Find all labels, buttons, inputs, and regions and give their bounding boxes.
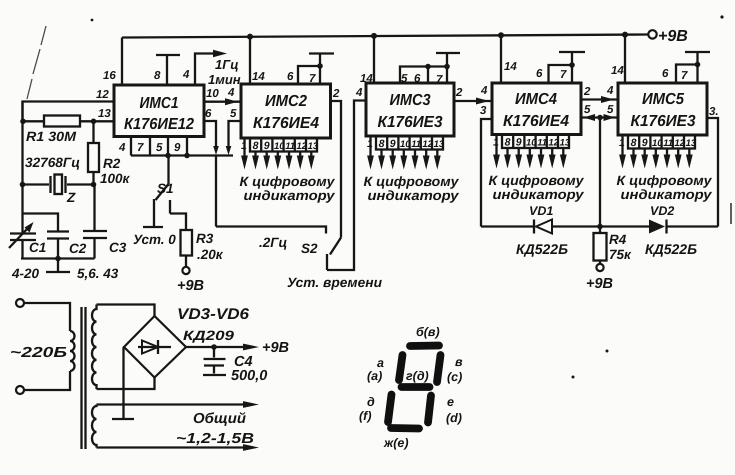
resistor R1 <box>23 116 114 127</box>
pin row IC2 <box>241 138 319 152</box>
label KD522B right <box>645 241 697 257</box>
wire IC4 pin2 to IC5 pin4 <box>581 96 618 103</box>
node R2-C3 junction <box>91 182 97 188</box>
svg-text:Общий: Общий <box>193 411 246 427</box>
wire left bus vertical <box>21 102 23 233</box>
label 1Hz <box>215 57 239 72</box>
pin 13 label IC1 <box>98 108 111 120</box>
svg-text:14: 14 <box>611 65 624 77</box>
speck near digit 2 <box>606 350 609 353</box>
wire mains to primary <box>24 303 70 390</box>
wire IC5 pin14 drop <box>624 35 626 83</box>
svg-text:8: 8 <box>253 140 259 152</box>
pins 6-7 staple IC4 <box>549 65 573 83</box>
svg-text:4: 4 <box>118 142 126 154</box>
svg-text:1Гц: 1Гц <box>215 57 239 72</box>
pins 6-7 staple IC2 <box>298 66 320 84</box>
capacitor C2 <box>47 232 69 259</box>
wire C2 feed <box>23 214 59 232</box>
svg-text:б(в): б(в) <box>416 325 440 339</box>
svg-text:ИМС3: ИМС3 <box>390 92 431 109</box>
label VD2 <box>650 204 674 218</box>
resistor R2 <box>88 121 99 184</box>
switch S1 <box>154 156 170 227</box>
wire IC2 pin14 drop <box>249 37 251 84</box>
svg-text:К цифровому: К цифровому <box>617 173 714 188</box>
svg-text:КД522Б: КД522Б <box>645 241 697 257</box>
svg-text:индикатору: индикатору <box>621 187 714 202</box>
svg-text:10: 10 <box>274 141 285 152</box>
wire S2 to IC3 pin4 <box>327 101 366 271</box>
capacitor C3 <box>83 185 107 259</box>
svg-text:(f): (f) <box>359 409 372 423</box>
svg-text:7: 7 <box>681 70 688 82</box>
node rail junction IC4 pin14 <box>498 32 504 38</box>
svg-text:7: 7 <box>137 142 144 154</box>
label C3 <box>109 240 127 255</box>
pin 4 label IC2 <box>227 87 235 99</box>
pin 8 label IC1 <box>154 70 161 82</box>
svg-text:S1: S1 <box>157 181 174 196</box>
wire secondary1 top to bridge <box>97 305 155 317</box>
svg-text:а: а <box>377 356 384 370</box>
wire common output arrow <box>97 401 260 408</box>
crystal Z <box>51 175 66 195</box>
svg-text:12: 12 <box>548 138 559 149</box>
pin 7 label IC5 <box>681 70 688 82</box>
label ~1,2-1,5V <box>176 431 254 447</box>
output arrows IC3 <box>367 136 441 170</box>
svg-text:10: 10 <box>652 138 663 149</box>
label to digital indicator IC3 <box>364 174 461 203</box>
svg-text:S2: S2 <box>301 241 318 256</box>
svg-text:6: 6 <box>287 71 294 83</box>
svg-text:ж(е): ж(е) <box>383 436 408 450</box>
svg-text:8: 8 <box>379 138 385 150</box>
node rail junction IC2 pin14 <box>247 34 253 40</box>
switch S2 <box>327 238 341 271</box>
svg-text:5: 5 <box>607 104 614 116</box>
pin 5 label IC5 <box>607 104 614 116</box>
svg-text:К цифровому: К цифровому <box>364 174 461 189</box>
label R2 <box>103 156 121 171</box>
svg-text:3.: 3. <box>709 106 719 118</box>
node IC2 pin7 junction <box>317 63 323 69</box>
pins 7-9 bottom rail IC1 <box>131 137 233 156</box>
svg-text:+9В: +9В <box>177 278 204 294</box>
pin 5 label IC3 <box>401 73 408 85</box>
label C1 <box>29 240 46 255</box>
svg-text:2: 2 <box>583 86 591 98</box>
output arrows IC2 <box>241 138 315 170</box>
pin 2 label IC4 <box>583 86 591 98</box>
ground bridge <box>112 418 134 420</box>
svg-text:4-20: 4-20 <box>11 266 40 281</box>
svg-text:.2Гц: .2Гц <box>259 235 288 250</box>
svg-text:8: 8 <box>154 70 161 82</box>
svg-text:11: 11 <box>537 138 547 149</box>
pin 5 label IC4 <box>584 104 591 116</box>
pin 4 label IC5 <box>606 85 614 97</box>
diode VD2 <box>649 220 667 234</box>
pin 3 label IC5 <box>709 106 719 118</box>
svg-text:5: 5 <box>230 108 237 120</box>
output arrows IC5 <box>619 135 693 169</box>
svg-text:.20к: .20к <box>197 247 224 262</box>
wire IC2 pin2 to S2 arm <box>331 101 342 238</box>
pin 6 label IC1 <box>205 108 212 120</box>
svg-text:К176ИЕ3: К176ИЕ3 <box>631 113 696 130</box>
svg-text:е: е <box>447 395 454 409</box>
wire bridge to ground <box>122 347 124 418</box>
capacitor C1 trimmer <box>9 222 36 259</box>
svg-text:+9В: +9В <box>262 340 289 356</box>
svg-text:VD2: VD2 <box>650 204 674 218</box>
svg-text:г(д): г(д) <box>406 369 429 383</box>
pin 16 label IC1 <box>103 70 116 82</box>
svg-text:(d): (d) <box>446 411 462 425</box>
capacitor C4 <box>203 347 226 375</box>
pin 4 label IC4 <box>480 85 488 97</box>
svg-text:VD3-VD6: VD3-VD6 <box>177 306 249 323</box>
svg-text:12: 12 <box>674 138 685 149</box>
diode VD1 <box>534 220 552 234</box>
svg-text:К цифровому: К цифровому <box>489 173 586 188</box>
svg-text:К176ИЕ4: К176ИЕ4 <box>503 113 569 130</box>
label to digital indicator IC5 <box>617 173 714 202</box>
wire IC3 pin14 drop <box>373 36 375 83</box>
pin 4 label IC1 <box>182 69 190 81</box>
IC U1 IMS1 K176IE12 <box>114 85 204 137</box>
svg-text:индикатору: индикатору <box>493 187 586 202</box>
svg-text:11: 11 <box>285 141 295 152</box>
label to digital indicator IC2 <box>240 174 337 203</box>
svg-text:11: 11 <box>411 139 421 150</box>
wire IC1 pin12 <box>23 102 115 122</box>
wire IC1 pin4 1Hz output arrow <box>195 50 227 85</box>
wire IC4 pin3 down <box>481 119 492 227</box>
svg-text:7: 7 <box>309 73 316 85</box>
resistor R3 <box>181 230 193 267</box>
svg-text:К цифровому: К цифровому <box>240 174 337 189</box>
IC U5 IMS5 K176IE3 <box>618 83 707 135</box>
pins 6-7 staple IC5 <box>676 65 698 84</box>
wire 5-5 down to R4 <box>599 118 601 227</box>
svg-text:500,0: 500,0 <box>231 368 267 384</box>
label R1 30M <box>26 129 77 144</box>
node R4 junction <box>597 224 603 230</box>
svg-text:2: 2 <box>332 88 340 100</box>
terminal mains bottom <box>16 386 24 394</box>
label 500,0 <box>231 368 267 384</box>
svg-text:~220Б: ~220Б <box>10 345 67 361</box>
svg-text:ИМС5: ИМС5 <box>642 91 685 108</box>
svg-text:R1 30М: R1 30М <box>26 129 77 144</box>
IC U2 IMS2 K176IE4 <box>241 84 331 138</box>
svg-text:6: 6 <box>414 73 421 85</box>
pin 2 label IC3 <box>455 87 463 99</box>
svg-text:1мин: 1мин <box>208 72 241 87</box>
speck <box>720 15 723 18</box>
svg-text:ИМС4: ИМС4 <box>515 91 557 108</box>
label C4 <box>234 354 253 370</box>
svg-text:9: 9 <box>264 140 270 152</box>
wire capacitor bottom rail <box>21 257 95 259</box>
terminal +9V R3 <box>177 267 204 294</box>
svg-text:С2: С2 <box>69 241 87 256</box>
transformer T1 secondary winding 1 <box>92 305 97 390</box>
terminal +9V top right <box>648 28 687 45</box>
label VD3-VD6 <box>177 306 249 323</box>
wire IC4 pin14 drop <box>500 35 502 83</box>
node IC3 pin6 junction <box>425 64 431 70</box>
svg-text:9: 9 <box>516 137 522 149</box>
node C2 bottom junction <box>55 256 61 262</box>
node IC5 pin7 junction <box>695 62 701 68</box>
svg-text:5: 5 <box>156 142 163 154</box>
svg-text:(а): (а) <box>367 369 382 383</box>
antenna T symbol IC3 <box>436 53 460 67</box>
svg-text:К176ИЕ3: К176ИЕ3 <box>378 114 443 131</box>
svg-text:4: 4 <box>606 85 614 97</box>
segment label d(f) left bottom <box>359 395 375 423</box>
segment label b(v) top <box>416 325 440 339</box>
svg-text:9: 9 <box>174 142 181 154</box>
svg-text:13: 13 <box>308 141 319 152</box>
node R2 tap on pin13 wire <box>91 119 97 125</box>
pin 6 label IC2 <box>287 71 294 83</box>
wire IC3 pin2 to IC4 pin4 <box>454 98 492 105</box>
pins 5-6-7 staple IC3 <box>400 67 447 84</box>
svg-text:6: 6 <box>205 108 212 120</box>
pin 10 label IC1 <box>206 88 219 100</box>
fold line scan artifact <box>27 26 46 99</box>
wire diode row <box>481 225 718 227</box>
transformer T1 secondary winding 2 <box>92 405 97 448</box>
ground Ust.0 <box>133 227 176 247</box>
svg-text:К176ИЕ12: К176ИЕ12 <box>124 116 194 133</box>
svg-text:12: 12 <box>296 141 307 152</box>
pin 7 label IC3 <box>436 74 443 86</box>
svg-text:12: 12 <box>96 89 109 101</box>
label R4 <box>609 232 627 247</box>
svg-text:9: 9 <box>390 138 396 150</box>
svg-text:13: 13 <box>686 138 697 149</box>
IC U3 IMS3 K176IE3 <box>366 83 454 136</box>
node IC4 pin7 junction <box>569 62 575 68</box>
wire +9V top rail <box>122 35 648 38</box>
svg-text:10: 10 <box>206 88 219 100</box>
pin row IC4 <box>493 135 571 149</box>
svg-text:ИМС1: ИМС1 <box>140 95 179 112</box>
label 100k <box>100 171 131 186</box>
svg-text:Уст. времени: Уст. времени <box>287 275 383 290</box>
svg-text:Уст. 0: Уст. 0 <box>133 232 176 247</box>
pin 6 label IC3 <box>414 73 421 85</box>
speck <box>91 19 94 22</box>
antenna T symbol IC4 <box>559 52 585 65</box>
svg-text:5: 5 <box>584 104 591 116</box>
svg-text:10: 10 <box>400 139 411 150</box>
svg-text:индикатору: индикатору <box>368 188 461 203</box>
svg-text:R3: R3 <box>196 231 214 246</box>
pin 3 label IC4 <box>480 105 487 117</box>
label 4-20 <box>11 266 40 281</box>
wire IC2 pin5 down <box>226 121 241 155</box>
wire 1.2-1.5V output arrow <box>97 444 260 451</box>
pin 12 label IC1 <box>96 89 109 101</box>
svg-text:4: 4 <box>355 87 363 99</box>
pin row IC5 <box>619 135 697 149</box>
label KD209 <box>183 328 235 343</box>
pin 4 label IC1 bottom <box>118 142 126 154</box>
antenna T symbol IC1 pin8 <box>156 55 180 85</box>
svg-text:R2: R2 <box>103 156 121 171</box>
svg-text:С3: С3 <box>109 240 127 255</box>
svg-text:индикатору: индикатору <box>244 188 337 203</box>
node rail junction IC3 pin14 <box>371 33 377 39</box>
speck near digit <box>572 376 575 379</box>
svg-text:11: 11 <box>663 138 673 149</box>
svg-text:16: 16 <box>103 70 116 82</box>
svg-text:13: 13 <box>98 108 111 120</box>
wire IC1 pin16 drop <box>121 38 123 86</box>
svg-text:32768Гц: 32768Гц <box>25 155 80 170</box>
label 2Hz <box>259 235 288 250</box>
svg-text:КД522Б: КД522Б <box>516 241 568 257</box>
svg-text:VD1: VD1 <box>529 204 553 218</box>
transformer T1 primary winding <box>70 331 75 371</box>
ground stub below C2 <box>46 259 70 273</box>
speck right edge <box>730 203 732 224</box>
svg-text:5,6. 43: 5,6. 43 <box>77 266 119 281</box>
svg-text:10: 10 <box>526 138 537 149</box>
pin 2 label IC2 <box>332 88 340 100</box>
bridge rectifier VD3-VD6 <box>124 316 186 378</box>
label ~220V <box>10 345 67 361</box>
svg-text:4: 4 <box>182 69 190 81</box>
wire secondary1 bottom to bridge <box>97 378 155 390</box>
wire +9V output arrow <box>186 340 289 356</box>
svg-text:~1,2-1,5В: ~1,2-1,5В <box>176 431 254 447</box>
node bus-R1 junction <box>20 119 26 125</box>
svg-text:R4: R4 <box>609 232 627 247</box>
label 32768Hz <box>25 155 80 170</box>
wire IC1 pin6 down <box>204 121 219 227</box>
output arrows IC4 <box>493 135 567 169</box>
label S2 <box>301 241 318 256</box>
node C4 junction <box>211 344 217 350</box>
pin row IC3 <box>367 136 445 150</box>
node bus-crystal junction <box>20 182 26 188</box>
label 20k <box>197 247 224 262</box>
svg-text:Z: Z <box>66 190 76 205</box>
pin 14 label IC5 <box>611 65 624 77</box>
label C2 <box>69 241 87 256</box>
svg-text:7: 7 <box>560 69 567 81</box>
label R3 <box>196 231 214 246</box>
terminal +9V R4 <box>586 264 613 292</box>
segment label e(d) right bottom <box>446 395 462 425</box>
label 5,6 43 <box>77 266 119 281</box>
IC U4 IMS4 K176IE4 <box>492 83 581 135</box>
resistor R4 <box>594 227 607 265</box>
svg-text:ИМС2: ИМС2 <box>265 93 307 110</box>
segment label v(c) right top <box>447 355 463 384</box>
svg-text:8: 8 <box>631 137 637 149</box>
label Ust. vremeni <box>287 275 383 290</box>
seven-segment indicator digit 8 <box>388 346 441 429</box>
label S1 <box>157 181 174 196</box>
svg-text:3: 3 <box>480 105 487 117</box>
segment label zh(e) bottom <box>383 436 408 450</box>
svg-text:4: 4 <box>480 85 488 97</box>
pin 6 label IC4 <box>536 68 543 80</box>
svg-text:9: 9 <box>642 137 648 149</box>
pin 7 label IC1 bottom <box>137 142 144 154</box>
svg-text:13: 13 <box>560 138 571 149</box>
pin 14 label IC3 <box>360 73 373 85</box>
node rail junction IC5 pin14 <box>622 32 628 38</box>
node pin5 junction <box>165 153 171 159</box>
svg-text:7: 7 <box>436 74 443 86</box>
node IC3 pin7 junction <box>444 64 450 70</box>
wire IC4 pin5 to IC5 pin5 <box>581 114 618 121</box>
pin 14 label IC4 <box>504 61 517 73</box>
svg-text:+9В: +9В <box>658 28 688 45</box>
svg-text:14: 14 <box>504 61 517 73</box>
pin 7 label IC2 <box>309 73 316 85</box>
label Z <box>66 190 76 205</box>
svg-text:100к: 100к <box>100 171 131 186</box>
pin 6 label IC5 <box>662 68 669 80</box>
wire IC5 pin3 down <box>707 118 718 227</box>
svg-text:6: 6 <box>662 68 669 80</box>
label 1min <box>208 72 241 87</box>
label KD522B left <box>516 241 568 257</box>
segment label g(d) middle <box>406 369 429 383</box>
svg-text:К176ИЕ4: К176ИЕ4 <box>253 115 319 132</box>
pin 9 label IC1 bottom <box>174 142 181 154</box>
pin 5 label IC1 bottom <box>156 142 163 154</box>
svg-text:4: 4 <box>227 87 235 99</box>
svg-text:8: 8 <box>505 137 511 149</box>
pin 5 label IC2 <box>230 108 237 120</box>
svg-text:12: 12 <box>422 139 433 150</box>
wire crystal net <box>23 183 94 185</box>
label Obshchiy <box>193 411 246 427</box>
wire S1 to R3 <box>170 214 186 231</box>
segment label a left top <box>367 356 384 383</box>
pin 14 label IC2 <box>252 71 265 83</box>
svg-text:С1: С1 <box>29 240 46 255</box>
svg-text:75к: 75к <box>609 247 632 262</box>
antenna T symbol IC5 <box>685 52 710 65</box>
transformer T1 core <box>82 307 86 449</box>
pin 4 label IC3 <box>355 87 363 99</box>
svg-text:2: 2 <box>455 87 463 99</box>
svg-text:КД209: КД209 <box>183 328 235 343</box>
label VD1 <box>529 204 553 218</box>
pin 7 label IC4 <box>560 69 567 81</box>
label 75k <box>609 247 632 262</box>
wire 2Hz to S2 <box>216 227 326 234</box>
antenna T symbol IC2 <box>309 54 334 67</box>
svg-text:д: д <box>367 395 375 409</box>
svg-text:(с): (с) <box>447 370 462 384</box>
node 5-5 wire junction <box>597 115 603 121</box>
node pin9 junction <box>184 153 190 159</box>
